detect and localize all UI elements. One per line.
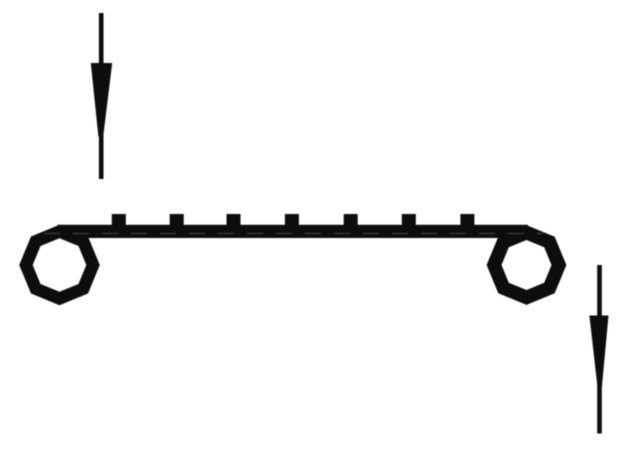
left scroll ring (octagonal eye) [19,225,100,306]
right scroll ring (octagonal eye) [487,225,567,305]
hidden dashed centerline inside bar [44,233,543,235]
tooth T3 [227,214,241,228]
tooth T6 [402,214,416,228]
tooth T7 [460,214,474,228]
force arrow F1 (top left, pointing down) [91,13,112,179]
tooth T4 [285,214,299,228]
force arrow F2 (bottom right, pointing down) [589,265,608,434]
tooth T1 [112,214,126,228]
tooth T5 [344,214,358,228]
tooth T2 [170,214,184,228]
toothed bar (rail between scroll ends) [58,225,529,238]
